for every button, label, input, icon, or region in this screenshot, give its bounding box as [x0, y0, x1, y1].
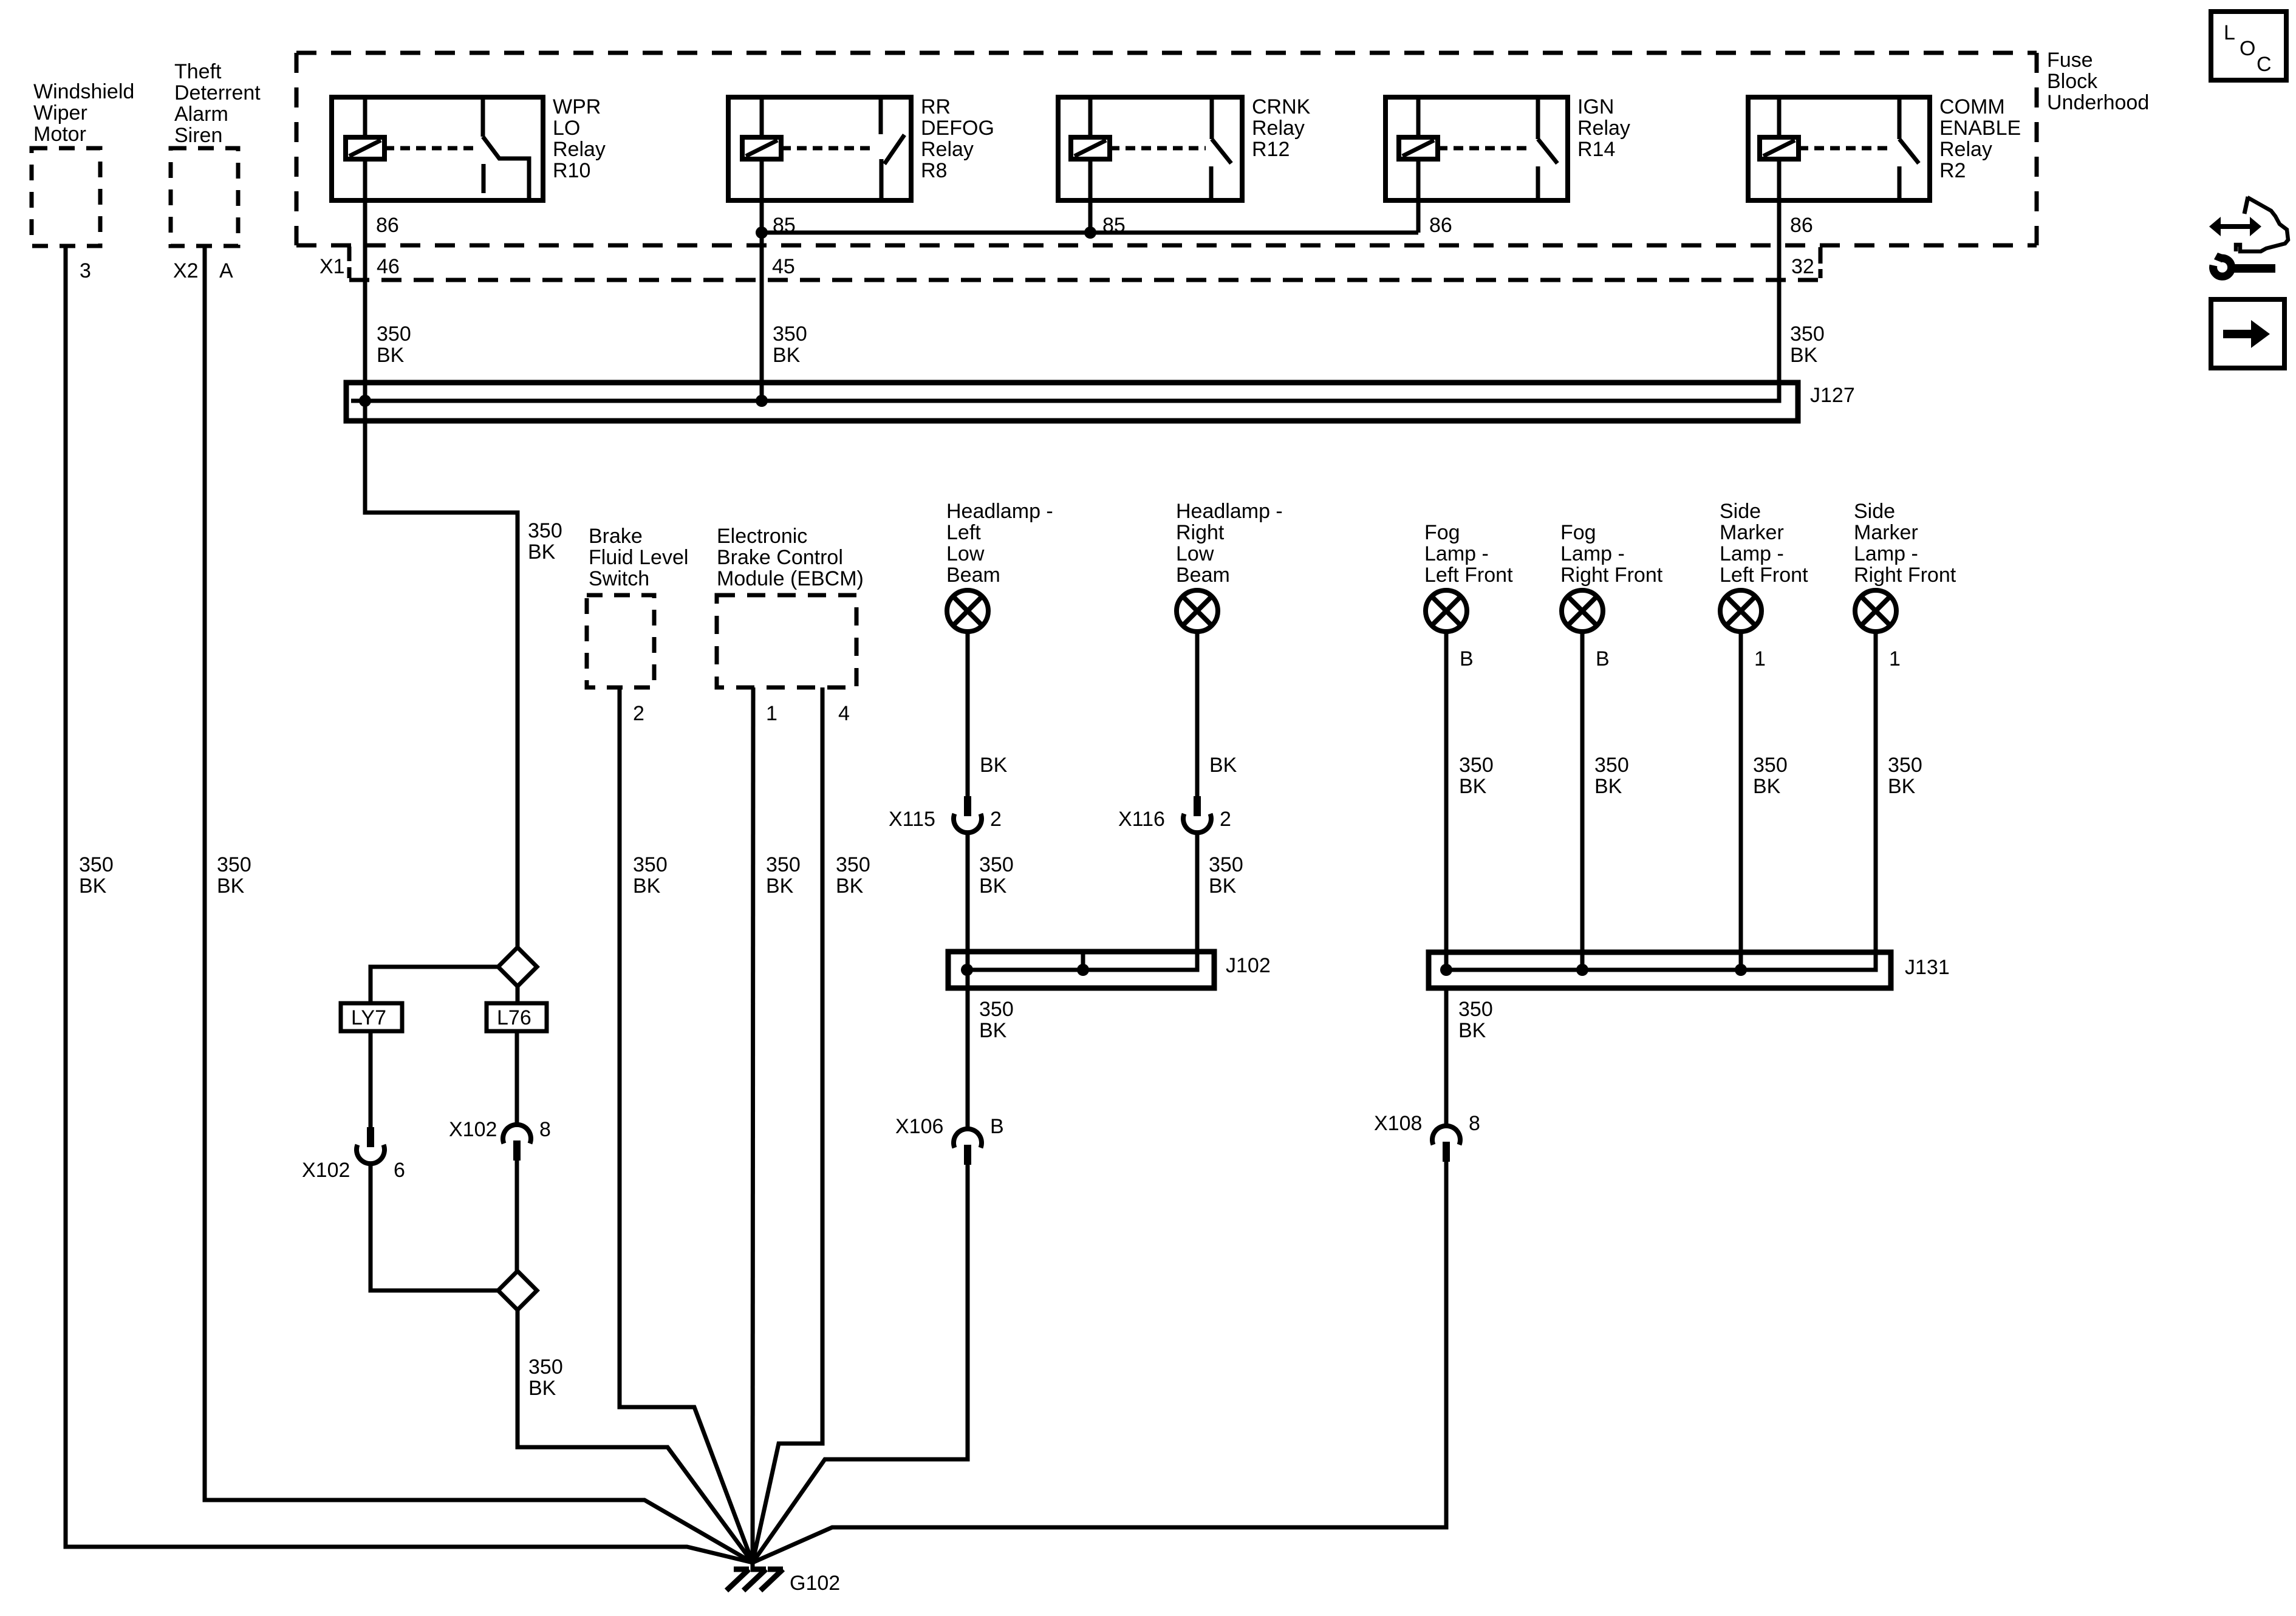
svg-text:BK: BK	[1753, 775, 1781, 798]
svg-text:350: 350	[633, 853, 668, 876]
wire headlamp left to X115	[966, 632, 970, 797]
side marker lamp left front lamp	[1720, 590, 1761, 632]
svg-text:X102: X102	[302, 1159, 350, 1182]
svg-text:X102: X102	[449, 1118, 497, 1141]
svg-text:45: 45	[772, 255, 795, 278]
wire J102 to X106	[966, 970, 970, 1131]
svg-text:350: 350	[528, 519, 562, 542]
relay R14 (IGN Relay)	[1385, 97, 1568, 200]
svg-text:B: B	[1460, 647, 1474, 670]
junction J102 middle	[1077, 964, 1089, 976]
svg-text:BK: BK	[79, 874, 107, 898]
wire label 350 BK	[1459, 754, 1494, 798]
svg-text:Left Front: Left Front	[1424, 564, 1513, 587]
wire label 350 BK siren	[217, 853, 251, 898]
svg-text:1: 1	[1889, 647, 1901, 670]
svg-text:350: 350	[1209, 853, 1243, 876]
svg-text:Alarm: Alarm	[174, 103, 228, 126]
svg-text:CRNK: CRNK	[1252, 95, 1311, 118]
wire label 350 BK right	[1790, 322, 1825, 367]
svg-text:X115: X115	[889, 808, 935, 831]
wire fog left to J131	[1444, 632, 1449, 970]
headlamp right low beam lamp	[1177, 590, 1218, 632]
svg-text:ENABLE: ENABLE	[1939, 117, 2021, 140]
EBCM box	[717, 595, 856, 687]
diamond splice upper	[498, 947, 537, 986]
junction J131 right	[1735, 964, 1747, 976]
junction J102 left	[961, 964, 973, 976]
svg-text:BK: BK	[1209, 754, 1237, 777]
svg-text:Low: Low	[946, 542, 985, 565]
svg-text:BK: BK	[979, 874, 1007, 898]
headlamp right low beam label	[1176, 500, 1283, 587]
svg-text:C: C	[2257, 53, 2272, 76]
svg-text:BK: BK	[1790, 344, 1818, 367]
wire label 350 BK	[1209, 853, 1243, 898]
svg-text:350: 350	[79, 853, 114, 876]
svg-text:B: B	[1596, 647, 1610, 670]
svg-text:350: 350	[1458, 998, 1493, 1021]
junction R12	[1084, 227, 1096, 239]
wire diamond to L76	[516, 986, 520, 1003]
svg-text:Underhood: Underhood	[2047, 91, 2149, 114]
svg-text:J127: J127	[1810, 384, 1855, 407]
svg-text:Block: Block	[2047, 70, 2098, 93]
svg-text:R14: R14	[1577, 138, 1615, 161]
svg-text:350: 350	[1459, 754, 1494, 777]
svg-text:Lamp -: Lamp -	[1720, 542, 1784, 565]
windshield wiper motor box	[32, 148, 100, 246]
wire label 350 BK brake switch	[633, 853, 668, 898]
svg-text:X106: X106	[895, 1115, 943, 1138]
ground G102	[726, 1569, 783, 1590]
svg-text:Relay: Relay	[553, 138, 606, 161]
connector X116	[1183, 796, 1211, 833]
svg-text:Side: Side	[1854, 500, 1895, 523]
wire J131 to X108	[1444, 988, 1449, 1128]
svg-text:Relay: Relay	[1939, 138, 1992, 161]
svg-text:350: 350	[217, 853, 251, 876]
headlamp left low beam lamp	[947, 590, 988, 632]
svg-text:Right Front: Right Front	[1560, 564, 1663, 587]
svg-text:BK: BK	[980, 754, 1008, 777]
wire label 350 BK	[1458, 998, 1493, 1042]
wire label 350 BK EBCM 4	[836, 853, 870, 898]
fog lamp left front lamp	[1426, 590, 1467, 632]
svg-text:46: 46	[377, 255, 400, 278]
svg-text:IGN: IGN	[1577, 95, 1614, 118]
svg-text:BK: BK	[773, 344, 801, 367]
svg-text:B: B	[990, 1115, 1004, 1138]
svg-text:2: 2	[633, 702, 644, 725]
junction J131 left	[1440, 964, 1452, 976]
connector X102 pin 8	[503, 1125, 531, 1161]
relay R12 (CRNK Relay)	[1058, 97, 1242, 200]
wire side marker right to J131	[1446, 632, 1876, 970]
svg-text:BK: BK	[836, 874, 864, 898]
wire headlamp right to X116	[1195, 632, 1200, 797]
svg-text:Fog: Fog	[1560, 521, 1596, 544]
svg-text:86: 86	[376, 214, 399, 237]
junction R8	[756, 227, 768, 239]
svg-text:1: 1	[1754, 647, 1766, 670]
svg-text:Left Front: Left Front	[1720, 564, 1808, 587]
wire siren to ground	[205, 246, 753, 1563]
brake fluid level switch label	[589, 525, 688, 590]
svg-text:Deterrent: Deterrent	[174, 81, 261, 104]
svg-text:Right Front: Right Front	[1854, 564, 1956, 587]
wire R8 pin 85 down	[760, 200, 764, 233]
svg-text:8: 8	[1469, 1112, 1480, 1135]
svg-text:BK: BK	[1594, 775, 1622, 798]
splice pack J127	[346, 383, 1798, 421]
svg-text:BK: BK	[217, 874, 245, 898]
wire R2 pin 86 to J127	[351, 200, 1779, 401]
svg-text:L76: L76	[497, 1006, 531, 1029]
svg-text:Electronic: Electronic	[717, 525, 807, 548]
wire fog right to J131	[1580, 632, 1585, 970]
svg-text:Low: Low	[1176, 542, 1214, 565]
svg-text:Beam: Beam	[1176, 564, 1230, 587]
wire label 350 BK	[1888, 754, 1922, 798]
relay R10 (WPR LO Relay)	[332, 97, 543, 200]
connector X115	[954, 796, 982, 833]
splice pack J131	[1429, 952, 1891, 988]
svg-text:4: 4	[838, 702, 850, 725]
svg-text:350: 350	[377, 322, 411, 346]
fog lamp right front label	[1560, 521, 1663, 587]
svg-text:Lamp -: Lamp -	[1424, 542, 1489, 565]
svg-text:BK: BK	[528, 540, 556, 564]
svg-text:COMM: COMM	[1939, 95, 2005, 118]
svg-text:350: 350	[766, 853, 801, 876]
svg-text:Left: Left	[946, 521, 981, 544]
svg-text:L: L	[2224, 21, 2235, 44]
wire label 350 BK	[1753, 754, 1788, 798]
theft deterrent alarm siren box	[171, 148, 238, 246]
wire EBCM pin 1 to ground	[753, 687, 753, 1570]
wire R14 pin 86 down	[1416, 200, 1421, 233]
svg-text:350: 350	[528, 1355, 563, 1379]
wire wiper motor to ground	[66, 246, 753, 1563]
svg-text:BK: BK	[1888, 775, 1916, 798]
svg-text:350: 350	[1594, 754, 1629, 777]
svg-text:Switch: Switch	[589, 567, 649, 590]
svg-text:Marker: Marker	[1854, 521, 1918, 544]
svg-text:350: 350	[979, 998, 1014, 1021]
wire joined pins to J127	[760, 233, 764, 401]
L76 box	[487, 1003, 547, 1031]
svg-text:Fog: Fog	[1424, 521, 1460, 544]
svg-text:350: 350	[773, 322, 807, 346]
wire X116 to J102	[967, 831, 1197, 970]
wire diamond to LY7	[371, 967, 498, 1003]
wire X115 to J102	[966, 831, 970, 970]
svg-text:Motor: Motor	[33, 123, 86, 146]
LY7 box	[341, 1003, 402, 1031]
junction J127 middle	[756, 395, 768, 407]
wire label 350 BK EBCM 1	[766, 853, 801, 898]
svg-text:R2: R2	[1939, 159, 1966, 182]
svg-text:86: 86	[1790, 214, 1813, 237]
svg-text:Beam: Beam	[946, 564, 1000, 587]
svg-text:Wiper: Wiper	[33, 101, 87, 124]
svg-text:Siren: Siren	[174, 124, 222, 147]
svg-text:A: A	[219, 259, 233, 282]
svg-text:32: 32	[1791, 255, 1814, 278]
svg-text:Headlamp -: Headlamp -	[1176, 500, 1283, 523]
wire X102-6 to diamond splice lower	[371, 1162, 498, 1290]
svg-text:BK: BK	[633, 874, 661, 898]
windshield wiper motor label	[33, 80, 134, 146]
relay R12 label	[1252, 95, 1311, 161]
svg-text:350: 350	[1753, 754, 1788, 777]
svg-text:350: 350	[1790, 322, 1825, 346]
svg-text:2: 2	[990, 808, 1002, 831]
svg-text:BK: BK	[979, 1019, 1007, 1042]
svg-text:350: 350	[1888, 754, 1922, 777]
svg-text:X116: X116	[1118, 808, 1165, 831]
svg-text:X2: X2	[173, 259, 199, 282]
svg-text:J131: J131	[1905, 956, 1950, 979]
diamond splice lower	[498, 1271, 537, 1310]
wire label 350 BK	[528, 519, 562, 564]
wire LY7 to connector X102-6	[369, 1031, 373, 1128]
wire joining 85-85-86 pins	[762, 231, 1418, 235]
svg-text:RR: RR	[921, 95, 951, 118]
svg-text:G102: G102	[790, 1572, 840, 1595]
svg-text:DEFOG: DEFOG	[921, 117, 994, 140]
svg-text:Brake Control: Brake Control	[717, 546, 843, 569]
svg-text:1: 1	[766, 702, 777, 725]
svg-text:BK: BK	[377, 344, 405, 367]
svg-text:Module (EBCM): Module (EBCM)	[717, 567, 864, 590]
wire label 350 BK	[528, 1355, 563, 1400]
headlamp left low beam label	[946, 500, 1053, 587]
wire EBCM pin 4 to ground	[753, 687, 822, 1563]
svg-text:Windshield: Windshield	[33, 80, 134, 103]
relay R2 (COMM ENABLE Relay)	[1748, 97, 1930, 200]
wire label 350 BK left	[377, 322, 411, 367]
connector service icon	[2209, 197, 2288, 251]
svg-text:Lamp -: Lamp -	[1854, 542, 1918, 565]
relay R8 label	[921, 95, 994, 182]
svg-text:Relay: Relay	[1252, 117, 1305, 140]
relay R10 label	[553, 95, 606, 182]
wire diamond splice to ground	[518, 1310, 753, 1563]
wire side marker left to J131	[1739, 632, 1743, 970]
svg-text:Fluid Level: Fluid Level	[589, 546, 688, 569]
theft deterrent alarm siren label	[174, 60, 261, 147]
junction J131 middle	[1576, 964, 1588, 976]
wire X102-8 to diamond splice lower	[515, 1161, 519, 1271]
wire label 350 BK	[979, 998, 1014, 1042]
connector X108	[1432, 1126, 1460, 1162]
wire X106 to ground	[753, 1165, 968, 1563]
svg-text:BK: BK	[1459, 775, 1487, 798]
wire J127 to diamond splice	[365, 401, 518, 947]
svg-text:Lamp -: Lamp -	[1560, 542, 1625, 565]
wire X108 to ground	[753, 1162, 1446, 1563]
connector X106	[954, 1129, 982, 1165]
LOC icon	[2211, 12, 2286, 80]
wire label 350 BK	[979, 853, 1014, 898]
svg-text:X1: X1	[319, 255, 345, 278]
svg-text:Theft: Theft	[174, 60, 222, 83]
connector X102 pin 6	[357, 1127, 384, 1164]
svg-text:350: 350	[979, 853, 1014, 876]
wire brake switch to ground	[620, 687, 753, 1563]
wire label 350 BK middle	[773, 322, 807, 367]
svg-text:Right: Right	[1176, 521, 1225, 544]
svg-text:BK: BK	[1209, 874, 1237, 898]
wire R10 pin 86 to J127	[363, 200, 367, 401]
relay R8 (RR DEFOG Relay)	[728, 97, 911, 200]
svg-text:Fuse: Fuse	[2047, 49, 2093, 72]
svg-text:Relay: Relay	[921, 138, 974, 161]
svg-text:Relay: Relay	[1577, 117, 1630, 140]
svg-text:BK: BK	[1458, 1019, 1486, 1042]
wire label 350 BK	[1594, 754, 1629, 798]
svg-text:LO: LO	[553, 117, 580, 140]
fog lamp right front lamp	[1562, 590, 1603, 632]
svg-text:BK: BK	[528, 1377, 556, 1400]
wire L76 to connector X102-8	[515, 1031, 519, 1127]
side marker lamp left front label	[1720, 500, 1808, 587]
svg-text:O: O	[2240, 37, 2255, 60]
svg-text:Marker: Marker	[1720, 521, 1784, 544]
wire R12 pin 85 down	[1088, 200, 1093, 233]
splice pack J102	[948, 952, 1214, 988]
junction J127 left	[359, 395, 371, 407]
wire label 350 BK wiper	[79, 853, 114, 898]
svg-text:350: 350	[836, 853, 870, 876]
arrow icon	[2211, 299, 2284, 368]
svg-text:2: 2	[1220, 808, 1231, 831]
svg-text:BK: BK	[766, 874, 794, 898]
svg-text:R12: R12	[1252, 138, 1290, 161]
brake fluid level switch box	[587, 595, 654, 687]
relay R2 label	[1939, 95, 2021, 182]
svg-text:6: 6	[394, 1159, 405, 1182]
svg-text:R8: R8	[921, 159, 947, 182]
fog lamp left front label	[1424, 521, 1513, 587]
side marker lamp right front lamp	[1855, 590, 1896, 632]
fuse block underhood dashed box	[296, 53, 2037, 245]
svg-text:3: 3	[80, 259, 91, 282]
svg-text:86: 86	[1429, 214, 1452, 237]
EBCM label	[717, 525, 864, 590]
fuse block label	[2047, 49, 2149, 114]
svg-text:Brake: Brake	[589, 525, 643, 548]
svg-text:X108: X108	[1374, 1112, 1422, 1135]
svg-text:8: 8	[539, 1118, 551, 1141]
relay R14 label	[1577, 95, 1630, 161]
wrench icon	[2213, 253, 2275, 276]
svg-text:Side: Side	[1720, 500, 1761, 523]
side marker lamp right front label	[1854, 500, 1956, 587]
X1 connector dashed line	[349, 247, 1820, 280]
svg-text:LY7: LY7	[351, 1006, 386, 1029]
svg-text:R10: R10	[553, 159, 590, 182]
svg-text:WPR: WPR	[553, 95, 601, 118]
svg-text:J102: J102	[1226, 954, 1271, 977]
svg-text:Headlamp -: Headlamp -	[946, 500, 1053, 523]
